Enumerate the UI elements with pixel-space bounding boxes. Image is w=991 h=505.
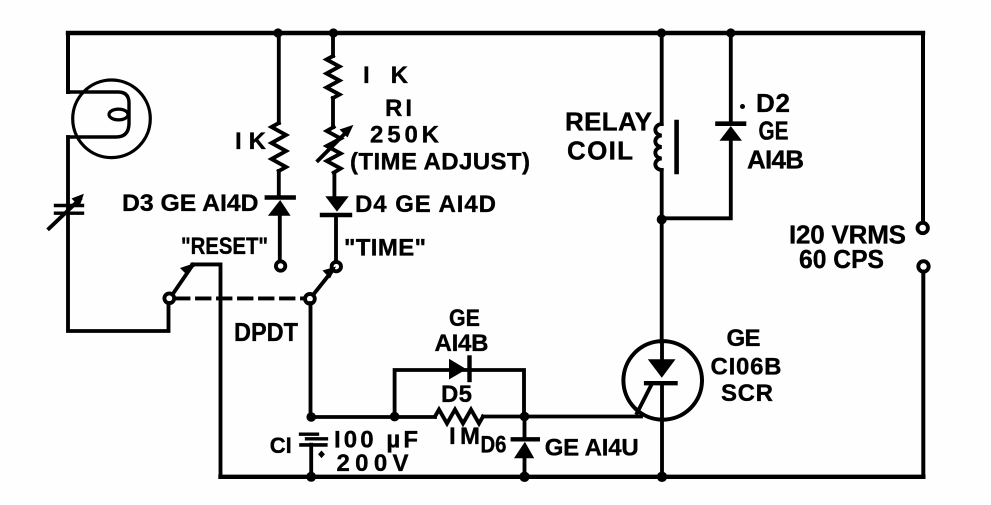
junction relay bottom: [657, 215, 667, 225]
junction top rail relay: [657, 28, 666, 37]
wire 1K to R1: [331, 98, 335, 127]
wire left side lower: [68, 137, 169, 331]
junction D6 bottom: [519, 472, 529, 482]
svg-text:AI4B: AI4B: [747, 145, 804, 175]
wire switch pole S1b down to C1: [309, 303, 313, 417]
SCR U1 circle: [623, 341, 702, 420]
svg-text:D3 GE AI4D: D3 GE AI4D: [122, 190, 259, 217]
terminal TIME contact: [332, 262, 341, 271]
relay coil: [655, 122, 676, 172]
wire D3 to RESET terminal: [278, 216, 282, 260]
svg-text:IK: IK: [235, 128, 267, 155]
switch pole S1b: [305, 294, 315, 304]
wire D5 loop: [395, 370, 524, 417]
junction top rail D2: [726, 28, 735, 37]
wire bottom rail: [221, 475, 924, 479]
svg-text:DPDT: DPDT: [234, 317, 298, 347]
wire right side lower: [921, 272, 925, 477]
wire relay lower to junction: [660, 170, 664, 220]
variable arrow symbol: [49, 194, 84, 229]
junction top rail node B: [329, 28, 338, 37]
terminal AC bottom: [918, 261, 928, 271]
terminal AC top: [918, 223, 928, 233]
switch pole S1a: [164, 293, 174, 303]
switch blade S1b: [313, 267, 336, 296]
svg-text:RI: RI: [385, 95, 412, 122]
wire branch D3 upper: [277, 33, 281, 123]
junction top rail node A: [273, 28, 282, 37]
svg-text:D5: D5: [441, 381, 472, 408]
wire relay to SCR anode: [660, 220, 664, 343]
terminal RESET contact: [276, 261, 285, 270]
svg-text:CI: CI: [270, 433, 292, 458]
lamp: [68, 80, 150, 158]
svg-text:D2: D2: [756, 88, 790, 118]
resistor 1M: [435, 410, 483, 424]
svg-text:GE: GE: [449, 305, 480, 332]
svg-text:"TIME": "TIME": [344, 235, 426, 262]
junction gate wire D6: [520, 412, 530, 422]
svg-text:CI06B: CI06B: [711, 354, 782, 381]
svg-text:COIL: COIL: [567, 136, 633, 166]
wire R1 to D4: [332, 173, 336, 196]
diode D6: [513, 417, 538, 477]
svg-text:AI4B: AI4B: [435, 330, 489, 357]
dashed DPDT link: [176, 296, 303, 300]
diode D3: [267, 198, 294, 216]
svg-text:(TIME ADJUST): (TIME ADJUST): [350, 149, 530, 176]
wire relay junction to D2: [662, 141, 731, 218]
svg-text:D4 GE AI4D: D4 GE AI4D: [355, 191, 496, 218]
svg-text:"RESET": "RESET": [181, 233, 268, 260]
svg-text:SCR: SCR: [721, 380, 773, 407]
wire top rail: [68, 31, 923, 35]
wire D4 to TIME terminal: [334, 215, 338, 261]
junction SCR cathode bottom: [657, 472, 667, 482]
svg-text:60 CPS: 60 CPS: [799, 244, 884, 274]
resistor 1K (reset branch): [272, 123, 287, 171]
svg-text:GE: GE: [727, 325, 761, 352]
wire relay upper: [660, 33, 664, 124]
svg-text:GE: GE: [759, 116, 789, 146]
svg-text:GE AI4U: GE AI4U: [545, 435, 639, 462]
diode D4: [322, 196, 350, 215]
wire resistor to D3: [277, 171, 281, 197]
wire gate line: [311, 415, 641, 419]
diode D2: [718, 33, 745, 141]
svg-text:IM: IM: [449, 423, 480, 450]
period before D2: [740, 104, 745, 109]
junction C1 bottom: [306, 472, 316, 482]
junction node D5 branch: [390, 412, 400, 422]
wire branch R1 upper: [331, 33, 335, 56]
capacitor C1: [301, 412, 327, 477]
resistor 1 K (timing branch): [327, 56, 340, 98]
potentiometer R1 250K: [318, 125, 353, 173]
svg-text:D6: D6: [481, 432, 507, 459]
wire right side upper: [921, 33, 925, 223]
diode D5: [449, 358, 470, 381]
switch blade S1a: [173, 262, 196, 294]
wire from blade S1a to left bottom corner: [193, 264, 221, 476]
wire left side upper: [66, 33, 70, 92]
svg-text:250K: 250K: [370, 122, 440, 149]
svg-text:RELAY: RELAY: [565, 107, 652, 137]
SCR internals: [637, 342, 676, 477]
